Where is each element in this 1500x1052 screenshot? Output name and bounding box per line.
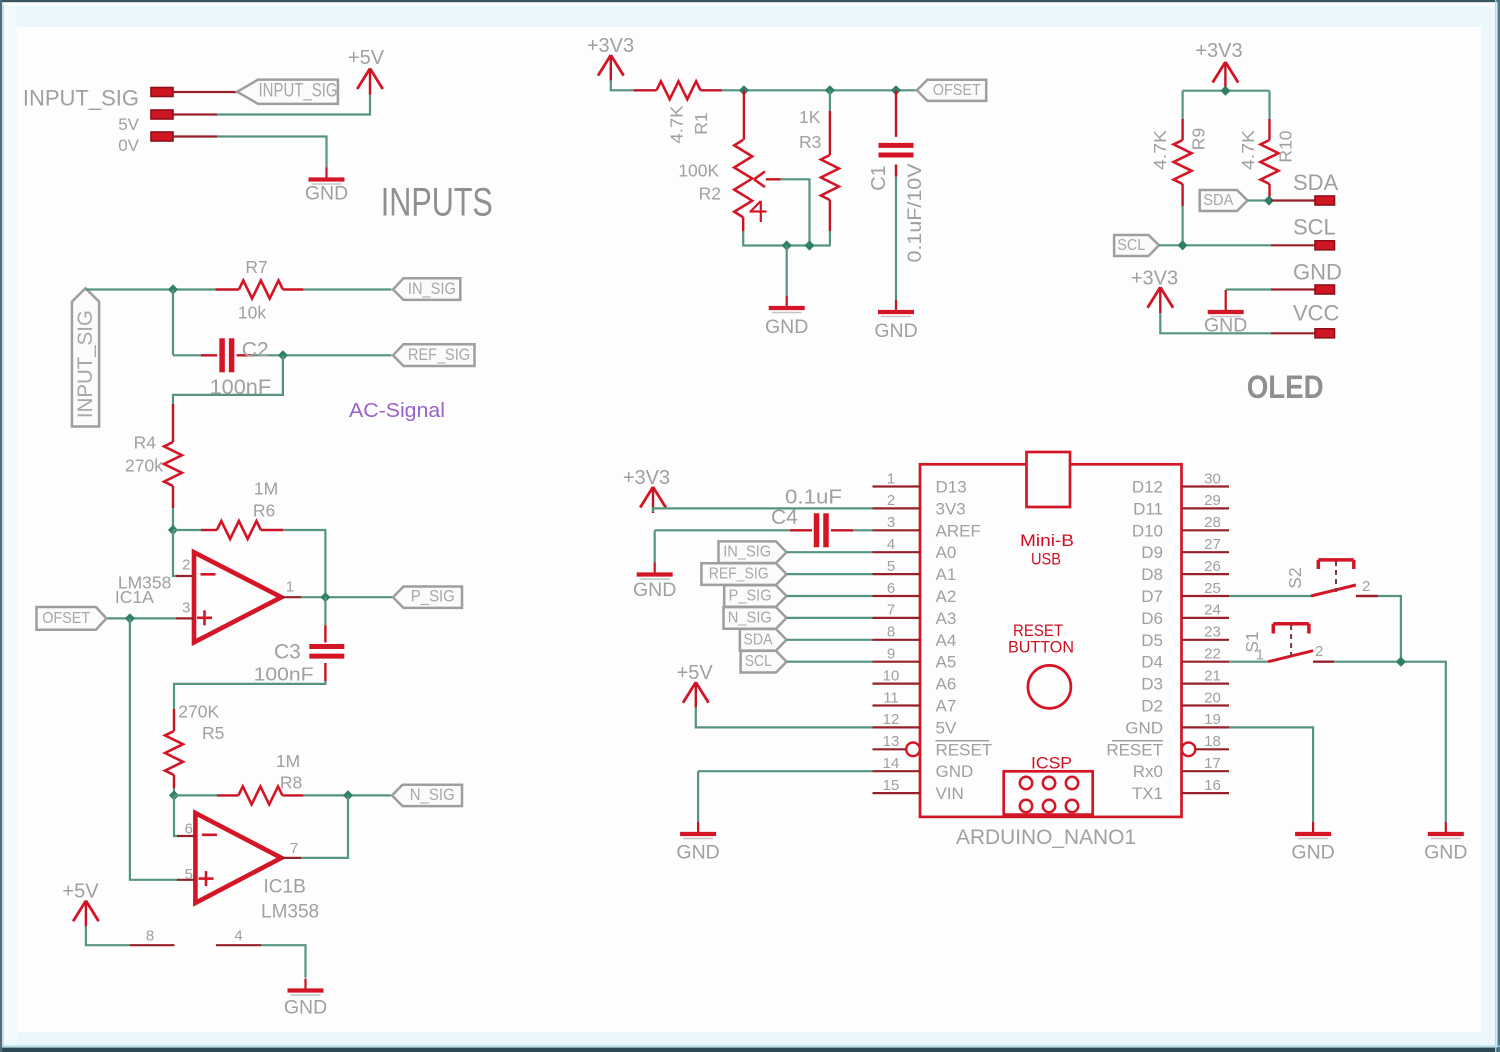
svg-text:5: 5 [887,558,895,575]
svg-text:Mini-B: Mini-B [1020,532,1074,550]
svg-text:GND: GND [676,842,719,864]
svg-text:R2: R2 [699,184,721,204]
svg-text:1M: 1M [254,479,278,499]
svg-text:R7: R7 [245,257,267,277]
svg-text:16: 16 [1204,777,1221,794]
svg-text:D5: D5 [1141,631,1163,650]
svg-text:3: 3 [887,514,895,531]
svg-text:A6: A6 [936,675,957,694]
svg-text:A1: A1 [936,565,957,584]
svg-text:INPUTS: INPUTS [381,181,493,225]
svg-text:C2: C2 [242,339,269,362]
svg-text:26: 26 [1204,558,1221,575]
svg-text:IN_SIG: IN_SIG [408,280,456,298]
svg-text:15: 15 [883,777,900,794]
svg-text:3V3: 3V3 [936,499,966,518]
svg-text:R4: R4 [134,433,157,453]
svg-text:Rx0: Rx0 [1133,762,1163,781]
svg-text:4: 4 [234,928,242,945]
svg-text:SDA: SDA [1293,170,1339,195]
svg-text:+5V: +5V [348,47,385,69]
svg-text:+3V3: +3V3 [1131,268,1178,290]
svg-text:A5: A5 [936,653,957,672]
svg-text:GND: GND [1424,842,1467,864]
svg-text:N_SIG: N_SIG [728,609,772,626]
svg-text:22: 22 [1204,646,1221,663]
svg-text:8: 8 [887,624,895,641]
svg-text:5: 5 [185,866,193,883]
svg-text:SDA: SDA [1203,192,1234,209]
svg-text:RESET: RESET [1106,740,1163,759]
svg-text:+5V: +5V [677,662,714,684]
svg-text:INPUT_SIG: INPUT_SIG [259,80,338,101]
svg-text:4.7K: 4.7K [666,105,686,143]
svg-text:GND: GND [305,183,348,205]
svg-text:R8: R8 [280,773,302,793]
svg-text:7: 7 [887,602,895,619]
svg-text:1: 1 [887,470,895,487]
svg-text:29: 29 [1204,492,1221,509]
svg-text:GND: GND [633,579,676,601]
svg-text:LM358: LM358 [261,902,319,923]
svg-text:ARDUINO_NANO1: ARDUINO_NANO1 [956,825,1136,849]
svg-text:INPUT_SIG: INPUT_SIG [23,86,139,111]
svg-text:C4: C4 [771,506,798,529]
svg-text:D10: D10 [1132,521,1163,540]
svg-text:S2: S2 [1285,567,1305,588]
svg-text:0V: 0V [118,136,139,155]
svg-text:2: 2 [1315,643,1323,660]
svg-text:+3V3: +3V3 [1195,40,1242,62]
svg-text:OFSET: OFSET [933,82,981,99]
svg-text:D7: D7 [1141,587,1163,606]
svg-text:IN_SIG: IN_SIG [723,544,771,561]
svg-text:VIN: VIN [936,784,964,803]
svg-text:10: 10 [883,667,900,684]
svg-text:A7: A7 [936,697,957,716]
svg-text:GND: GND [936,762,974,781]
svg-text:100K: 100K [678,161,719,181]
svg-text:C3: C3 [274,641,301,664]
svg-text:A0: A0 [936,543,957,562]
svg-text:2: 2 [887,492,895,509]
svg-text:R5: R5 [202,723,224,743]
svg-text:D4: D4 [1141,653,1163,672]
svg-text:6: 6 [185,821,193,838]
svg-text:10k: 10k [238,303,266,323]
svg-text:270k: 270k [125,456,163,476]
svg-text:13: 13 [883,733,900,750]
svg-text:21: 21 [1204,667,1221,684]
svg-text:9: 9 [887,646,895,663]
svg-text:USB: USB [1031,551,1061,569]
svg-text:VCC: VCC [1293,301,1340,326]
svg-text:1K: 1K [799,107,821,127]
svg-text:4.7K: 4.7K [1150,130,1170,170]
svg-text:REF_SIG: REF_SIG [709,566,769,583]
svg-text:5V: 5V [118,115,139,134]
svg-text:IC1B: IC1B [264,877,306,898]
svg-text:D9: D9 [1141,543,1163,562]
svg-text:IC1A: IC1A [115,587,154,607]
svg-text:25: 25 [1204,580,1221,597]
svg-text:2: 2 [1362,578,1370,595]
svg-text:SCL: SCL [1293,215,1336,240]
svg-text:23: 23 [1204,624,1221,641]
svg-text:N_SIG: N_SIG [410,786,455,804]
svg-text:SCL: SCL [1117,237,1145,254]
svg-text:R10: R10 [1275,130,1295,162]
svg-text:AC-Signal: AC-Signal [349,400,445,422]
svg-text:6: 6 [887,580,895,597]
svg-text:R9: R9 [1189,128,1209,150]
svg-text:100nF: 100nF [254,664,314,685]
svg-text:+3V3: +3V3 [623,467,670,489]
svg-text:GND: GND [874,320,917,342]
svg-text:8: 8 [146,928,154,945]
svg-text:R1: R1 [691,112,711,134]
svg-text:27: 27 [1204,536,1221,553]
svg-text:4.7K: 4.7K [1238,130,1258,170]
svg-text:D13: D13 [936,478,967,497]
svg-text:RESET: RESET [936,740,993,759]
svg-text:SDA: SDA [744,631,774,648]
svg-text:4: 4 [887,536,895,553]
svg-text:A4: A4 [936,631,957,650]
svg-text:GND: GND [284,997,327,1019]
svg-text:BUTTON: BUTTON [1008,639,1074,657]
svg-text:R6: R6 [253,501,275,521]
svg-text:20: 20 [1204,689,1221,706]
svg-text:2: 2 [182,557,190,574]
svg-text:A3: A3 [936,609,957,628]
svg-text:+3V3: +3V3 [587,35,634,57]
svg-text:GND: GND [1291,842,1334,864]
svg-text:24: 24 [1204,602,1221,619]
svg-text:7: 7 [290,840,298,857]
svg-text:5V: 5V [936,718,957,737]
svg-text:R3: R3 [799,132,821,152]
svg-text:1M: 1M [276,751,300,771]
svg-text:18: 18 [1204,733,1221,750]
svg-text:17: 17 [1204,755,1221,772]
svg-text:14: 14 [883,755,900,772]
svg-text:INPUT_SIG: INPUT_SIG [74,310,97,418]
svg-text:270K: 270K [178,702,219,722]
svg-text:D6: D6 [1141,609,1163,628]
svg-text:GND: GND [765,316,808,338]
svg-text:28: 28 [1204,514,1221,531]
svg-text:OLED: OLED [1247,369,1324,405]
svg-text:30: 30 [1204,470,1221,487]
svg-text:11: 11 [883,689,899,706]
svg-text:TX1: TX1 [1132,784,1163,803]
svg-text:C1: C1 [868,165,890,191]
svg-text:ICSP: ICSP [1031,755,1072,773]
svg-text:P_SIG: P_SIG [729,588,772,605]
svg-text:1: 1 [286,578,294,595]
svg-text:D2: D2 [1141,697,1163,716]
svg-text:D3: D3 [1141,675,1163,694]
svg-text:D11: D11 [1133,499,1163,518]
svg-text:AREF: AREF [936,521,981,540]
svg-text:1: 1 [1256,647,1264,664]
svg-text:OFSET: OFSET [42,610,90,627]
svg-text:D12: D12 [1132,478,1163,497]
svg-text:D8: D8 [1141,565,1163,584]
svg-text:19: 19 [1204,711,1221,728]
svg-text:3: 3 [182,599,190,616]
svg-text:12: 12 [883,711,900,728]
svg-text:REF_SIG: REF_SIG [408,346,470,364]
svg-text:RESET: RESET [1013,622,1063,640]
svg-text:0.1uF/10V: 0.1uF/10V [905,163,926,262]
svg-text:SCL: SCL [745,653,772,670]
svg-text:GND: GND [1125,718,1163,737]
svg-text:A2: A2 [936,587,957,606]
svg-text:+5V: +5V [62,881,99,903]
svg-text:P_SIG: P_SIG [411,588,455,606]
svg-text:GND: GND [1293,260,1342,285]
